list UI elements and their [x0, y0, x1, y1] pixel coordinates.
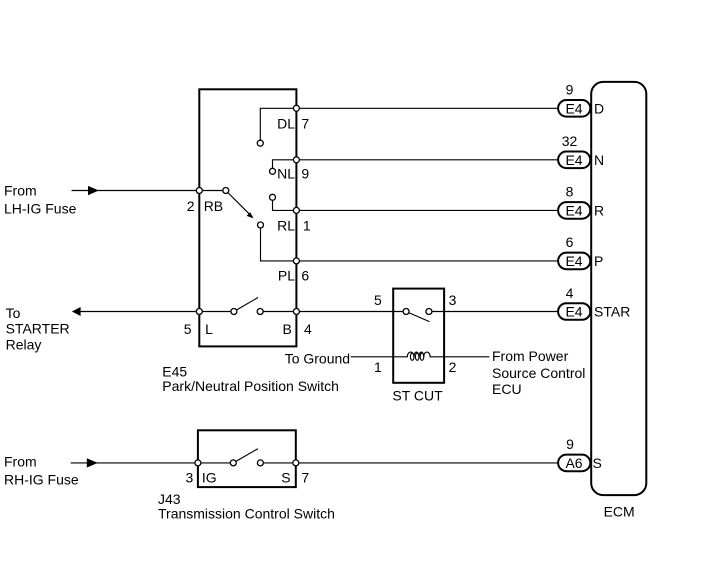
svg-text:3: 3 [186, 469, 194, 485]
svg-text:ST CUT: ST CUT [392, 388, 443, 404]
svg-text:32: 32 [562, 133, 578, 149]
svg-text:STARTER: STARTER [6, 321, 70, 337]
svg-text:PL: PL [278, 268, 295, 284]
svg-text:Transmission Control Switch: Transmission Control Switch [158, 506, 335, 522]
svg-text:ECM: ECM [604, 504, 635, 520]
contact RL [270, 194, 276, 200]
svg-text:4: 4 [566, 285, 574, 301]
svg-text:4: 4 [304, 321, 312, 337]
wire DL contact branch [260, 108, 296, 140]
arrowhead to STARTER relay [72, 307, 81, 316]
arrowhead LH-IG feed [88, 186, 99, 195]
connector pin E4-N [558, 152, 590, 169]
svg-text:Relay: Relay [6, 336, 42, 352]
svg-text:E4: E4 [565, 202, 582, 218]
svg-text:ECU: ECU [492, 381, 522, 397]
junction E45 pin 2 [196, 188, 202, 194]
contact ST CUT pin5 side [403, 309, 409, 315]
contact ST CUT pin3 side [426, 309, 432, 315]
svg-text:R: R [594, 203, 604, 219]
label To STARTER Relay [6, 305, 70, 353]
junction E45 pin 7 DL [293, 105, 299, 111]
svg-text:RB: RB [204, 198, 223, 214]
label From Power Source Control ECU [492, 348, 585, 397]
svg-text:IG: IG [202, 469, 217, 485]
relay ST CUT box [393, 289, 444, 383]
switch wiper arm E45 RB [228, 193, 254, 219]
svg-text:E4: E4 [565, 152, 582, 168]
wire from RH-IG Fuse to J43 pin 3 [71, 462, 198, 464]
svg-text:7: 7 [301, 115, 309, 131]
label J43 Transmission Control Switch [158, 491, 335, 522]
inductor ST CUT relay coil [393, 352, 444, 360]
svg-text:D: D [594, 101, 604, 117]
wire E45 pin 7 DL to ECM E4-D [296, 107, 558, 109]
wire To Ground to ST CUT pin 1 [351, 356, 394, 358]
svg-text:Park/Neutral Position Switch: Park/Neutral Position Switch [162, 378, 339, 394]
svg-text:J43: J43 [158, 491, 181, 507]
svg-text:2: 2 [449, 359, 457, 375]
svg-text:NL: NL [277, 165, 295, 181]
arrowhead RH-IG feed [87, 458, 98, 467]
svg-text:A6: A6 [565, 455, 582, 471]
svg-text:LH-IG Fuse: LH-IG Fuse [4, 201, 77, 217]
svg-text:6: 6 [566, 234, 574, 250]
label E45 Park/Neutral Position Switch [162, 364, 339, 394]
svg-text:S: S [281, 469, 290, 485]
switch E45 Park/Neutral Position Switch box [199, 89, 296, 346]
connector pin E4-P [558, 253, 590, 270]
wire E45 pin5 to contact L [199, 311, 234, 313]
junction E45 pin 9 NL [293, 157, 299, 163]
svg-text:N: N [594, 152, 604, 168]
wire E45 pin 5 L to STARTER relay [80, 311, 200, 313]
wire contact S to J43 pin7 [260, 462, 295, 464]
wire E45 pin 9 NL to ECM E4-N [296, 159, 558, 161]
contact S [257, 460, 263, 466]
svg-text:STAR: STAR [594, 304, 630, 320]
wire contact B to E45 pin4 [260, 311, 296, 313]
svg-text:1: 1 [374, 359, 382, 375]
wire E45 pin 4 B to ST CUT pin 5 [296, 311, 406, 313]
connector pin E4-D [558, 100, 590, 117]
svg-text:DL: DL [277, 115, 295, 131]
wire from LH-IG Fuse to E45 pin 2 [72, 190, 226, 192]
svg-text:RL: RL [277, 217, 295, 233]
junction J43 pin 7 [293, 460, 299, 466]
wire E45 pin 6 PL to ECM E4-P [296, 260, 558, 262]
svg-text:E4: E4 [565, 253, 582, 269]
svg-text:E4: E4 [565, 304, 582, 320]
svg-text:L: L [205, 321, 213, 337]
switch J43 Transmission Control Switch box [198, 430, 296, 487]
svg-text:6: 6 [301, 268, 309, 284]
switch lever J43 [233, 449, 258, 463]
label From LH-IG Fuse [4, 183, 77, 217]
connector ECM body [591, 82, 646, 495]
svg-text:To Ground: To Ground [285, 351, 350, 367]
connector pin E4-R [558, 202, 590, 219]
contact IG [230, 460, 236, 466]
contact PL [258, 222, 264, 228]
connector pin A6-S [558, 455, 590, 472]
svg-text:8: 8 [566, 184, 574, 200]
svg-text:2: 2 [187, 198, 195, 214]
contact B [257, 309, 263, 315]
wire PL contact branch [261, 228, 297, 261]
svg-text:7: 7 [301, 469, 309, 485]
wire J43 pin 7 to ECM A6-S [296, 462, 558, 464]
svg-text:5: 5 [374, 292, 382, 308]
svg-text:To: To [6, 305, 21, 321]
svg-text:B: B [283, 321, 292, 337]
contact DL [257, 140, 263, 146]
contact L [231, 309, 237, 315]
junction E45 pin 1 RL [293, 207, 299, 213]
svg-text:9: 9 [566, 436, 574, 452]
contact RB wiper pivot [223, 188, 229, 194]
svg-text:Source Control: Source Control [492, 365, 585, 381]
wire J43 pin3 to contact IG [198, 462, 233, 464]
wire RL contact branch [273, 200, 297, 210]
svg-text:RH-IG Fuse: RH-IG Fuse [4, 472, 79, 488]
junction J43 pin 3 [195, 460, 201, 466]
svg-text:9: 9 [566, 82, 574, 98]
junction E45 pin 6 PL [293, 258, 299, 264]
svg-text:3: 3 [449, 292, 457, 308]
contact NL [270, 168, 276, 174]
switch lever ST CUT relay contact [406, 312, 429, 322]
svg-text:From: From [4, 183, 37, 199]
svg-text:From: From [4, 454, 37, 470]
wire E45 pin 1 RL to ECM E4-R [296, 209, 558, 211]
junction E45 pin 4 B [293, 309, 299, 315]
svg-text:1: 1 [303, 217, 311, 233]
switch lever E45 L-B [234, 298, 258, 312]
wire NL contact branch [273, 160, 297, 169]
svg-text:5: 5 [184, 321, 192, 337]
svg-text:S: S [593, 455, 602, 471]
connector pin E4-STAR [558, 303, 590, 320]
wire ST CUT pin 3 to ECM E4-STAR [429, 311, 558, 313]
svg-text:9: 9 [301, 165, 309, 181]
wire ST CUT pin 2 from Power Source Control ECU [444, 356, 489, 358]
svg-text:E4: E4 [565, 100, 582, 116]
junction E45 pin 5 L [196, 309, 202, 315]
label From RH-IG Fuse [4, 454, 79, 488]
svg-text:P: P [594, 253, 603, 269]
svg-text:From Power: From Power [492, 348, 569, 364]
